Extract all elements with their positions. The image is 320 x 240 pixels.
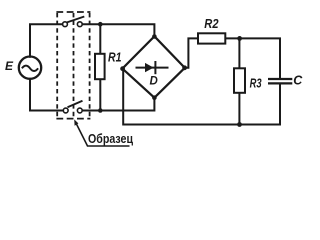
junction node R3 bottom [237, 122, 242, 127]
svg-text:Образец: Образец [88, 132, 133, 146]
switch S1 (top) [63, 17, 85, 27]
junction node right vertex [182, 65, 187, 70]
svg-text:R2: R2 [204, 17, 218, 31]
svg-text:R1: R1 [108, 50, 122, 64]
wire DC negative rail from bridge left vertex [123, 69, 280, 125]
resistor R3 [234, 68, 245, 93]
dashed enclosure (sample boundary) [56, 12, 90, 119]
resistor R1 [95, 54, 105, 79]
wire R1 top lead [99, 24, 101, 53]
diode D inside bridge [136, 61, 169, 74]
svg-text:E: E [5, 59, 14, 73]
capacitor C [268, 79, 292, 83]
bridge rectifier diamond [122, 36, 184, 97]
wire bottom from switch to bridge bottom [83, 99, 154, 111]
svg-text:C: C [293, 74, 303, 88]
svg-text:D: D [150, 75, 158, 87]
wire R3 bottom lead [238, 94, 240, 125]
wire R2 to capacitor top [226, 38, 280, 78]
AC source E [19, 56, 41, 78]
junction node top vertex [152, 34, 157, 39]
resistor R2 [198, 33, 225, 43]
junction node left vertex [120, 66, 125, 71]
wire R1 bottom lead [99, 80, 101, 111]
junction node R1 top [98, 22, 103, 27]
leader arrow to sample box [74, 119, 129, 146]
wire bottom from source to switch [30, 79, 63, 111]
wire top from switch to bridge top [83, 24, 154, 34]
junction node R3 top [237, 36, 242, 41]
svg-text:R3: R3 [250, 76, 262, 90]
wire top from source to switch [30, 24, 62, 57]
junction node bottom vertex [152, 95, 157, 100]
wire R3 top lead [238, 38, 240, 68]
junction node R1 bottom [98, 108, 103, 113]
wire bridge right vertex to R2 [185, 38, 198, 67]
switch S2 (bottom) [63, 101, 82, 113]
